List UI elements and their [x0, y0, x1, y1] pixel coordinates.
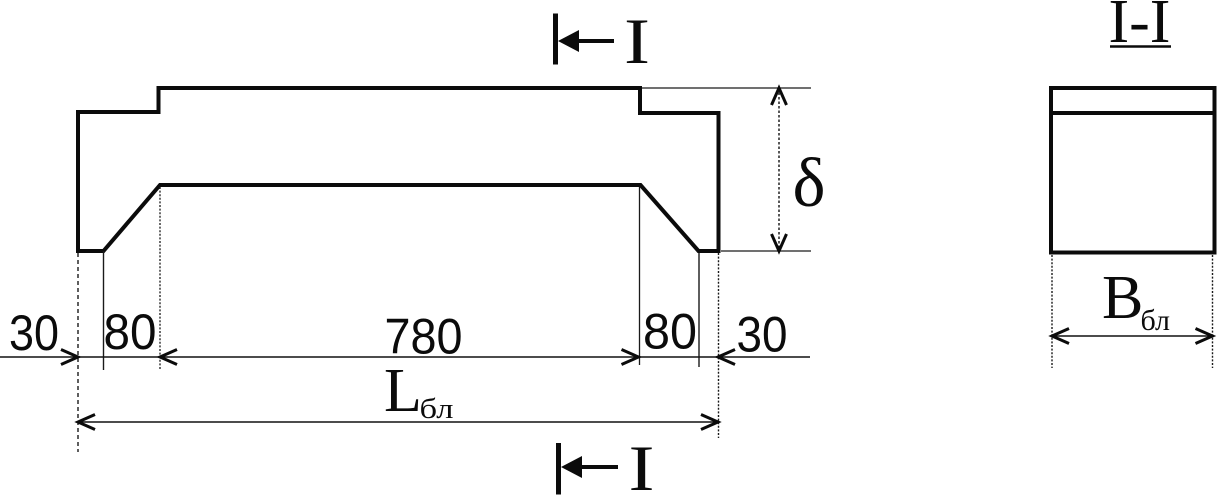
svg-text:L: L — [384, 357, 422, 425]
svg-text:30: 30 — [9, 305, 59, 361]
svg-text:бл: бл — [1141, 304, 1171, 337]
svg-text:30: 30 — [737, 307, 788, 363]
svg-text:80: 80 — [643, 304, 697, 360]
svg-text:δ: δ — [793, 145, 826, 222]
svg-text:бл: бл — [420, 393, 454, 425]
svg-text:I: I — [629, 433, 655, 498]
svg-text:I: I — [624, 6, 650, 78]
svg-text:B: B — [1102, 264, 1143, 332]
svg-text:80: 80 — [104, 304, 157, 360]
